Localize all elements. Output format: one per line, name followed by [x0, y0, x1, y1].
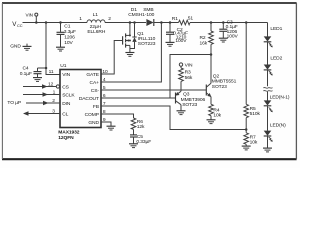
op-amp/IC U1 MAX1932	[58, 63, 101, 141]
svg-text:CC: CC	[17, 23, 23, 28]
svg-text:0.33µF: 0.33µF	[136, 139, 151, 145]
ground (C4)	[33, 78, 42, 82]
wire GATE pin to Q1 gate	[101, 41, 123, 75]
wire node54 to Q3 base column	[170, 55, 211, 99]
svg-text:56k: 56k	[185, 75, 193, 81]
node R2/Q2 collector junction	[210, 53, 213, 56]
node R2 tap	[210, 21, 213, 24]
ground (C1)	[56, 47, 65, 51]
terminal VIN (top input)	[26, 12, 38, 22]
svg-text:LED(N): LED(N)	[270, 123, 286, 129]
svg-text:100V: 100V	[175, 38, 187, 44]
transistor Q1 IRLL110 SOT223	[123, 23, 156, 53]
wire VCC rail to L1	[23, 22, 88, 24]
svg-text:U1: U1	[60, 63, 66, 69]
capacitor C1 3.3uF	[57, 23, 77, 48]
svg-text:ELL6RH: ELL6RH	[87, 29, 105, 35]
svg-text:CMSH1-100: CMSH1-100	[128, 12, 154, 18]
svg-text:3.3µF: 3.3µF	[64, 29, 76, 35]
svg-text:1206: 1206	[64, 35, 75, 41]
svg-text:510k: 510k	[250, 111, 261, 117]
terminal VIN (R3 pullup)	[179, 62, 193, 68]
wire DACOUT pin6 to Q3 base	[101, 97, 176, 99]
node R5 tap	[245, 21, 248, 24]
ground (Q1 source)	[125, 53, 134, 57]
node C4 junction	[45, 67, 48, 70]
transistor Q3 MMBT3906 SOT23	[175, 91, 205, 110]
svg-text:0.1µF: 0.1µF	[20, 71, 32, 77]
svg-text:DACOUT: DACOUT	[79, 96, 99, 102]
LED1	[264, 26, 283, 65]
ground (pin9)	[107, 126, 116, 130]
ground (input GND)	[10, 44, 31, 51]
node U1-VIN tap	[45, 21, 48, 24]
svg-text:Q2: Q2	[213, 74, 220, 80]
svg-text:SCLK: SCLK	[62, 92, 75, 98]
resistor R1 51	[172, 15, 194, 25]
svg-text:10k: 10k	[250, 140, 258, 146]
capacitor C4 0.1uF	[20, 65, 46, 77]
wire DIN from uP	[26, 101, 60, 105]
wire output rail down to LED string	[267, 23, 269, 37]
node C1 tap	[59, 21, 62, 24]
node Q1 drain tap	[129, 21, 132, 24]
svg-text:CS: CS	[62, 84, 69, 90]
svg-text:CS-: CS-	[91, 88, 100, 94]
ground (C5)	[129, 144, 138, 148]
svg-text:Q1: Q1	[137, 31, 144, 37]
svg-text:MAX1932: MAX1932	[58, 129, 79, 135]
svg-text:R3: R3	[185, 70, 191, 76]
resistor R7 10k	[244, 130, 258, 146]
svg-text:R1: R1	[172, 16, 178, 22]
wire D1 to R1	[154, 22, 179, 24]
svg-text:GND: GND	[10, 44, 21, 50]
svg-text:1: 1	[79, 16, 82, 22]
svg-text:SOT223: SOT223	[138, 41, 156, 47]
svg-text:10k: 10k	[213, 112, 221, 118]
resistor R6 12k	[131, 118, 145, 135]
svg-text:16k: 16k	[200, 40, 208, 46]
node FB divider junction	[245, 128, 248, 131]
svg-text:10: 10	[102, 69, 108, 75]
svg-text:VIN: VIN	[185, 62, 193, 68]
svg-text:FB: FB	[93, 104, 99, 110]
resistor R3 56k	[179, 66, 193, 91]
wire FB pin7 to divider	[101, 106, 246, 130]
svg-text:100V: 100V	[227, 34, 239, 40]
resistor R4 10k	[209, 104, 222, 119]
svg-text:VIN: VIN	[62, 72, 70, 78]
svg-text:12k: 12k	[137, 124, 145, 130]
resistor R5 510k	[244, 23, 261, 130]
svg-text:CL: CL	[62, 111, 68, 117]
wire COMP pin8 to R6	[101, 114, 134, 118]
node CS+ sense tap	[160, 21, 163, 24]
node C2 tap	[169, 21, 172, 24]
node VIN junction	[35, 21, 38, 24]
svg-text:Q3: Q3	[183, 92, 190, 98]
svg-text:12QFN: 12QFN	[58, 135, 74, 141]
border frame	[2, 3, 297, 159]
diode D1 CMSH1-100	[128, 7, 154, 26]
wire SCLK from uP	[23, 92, 60, 96]
inductor L1 22uH	[79, 12, 111, 35]
svg-text:R2: R2	[200, 35, 206, 41]
ground (R7)	[242, 146, 251, 150]
svg-text:MMBT5551: MMBT5551	[212, 79, 237, 85]
wire L1 to D1	[105, 22, 146, 24]
LED(N-1)	[264, 94, 290, 130]
LED2	[264, 55, 283, 86]
svg-text:SOT23: SOT23	[182, 102, 197, 108]
svg-text:LED(N-1): LED(N-1)	[270, 94, 290, 100]
node Q1 body-diode tap	[133, 21, 136, 24]
transistor Q2 MMBT5551 SOT23	[206, 55, 236, 105]
wire CS- pin5 to Q2 base	[101, 89, 206, 91]
svg-text:SOT23: SOT23	[212, 84, 227, 90]
ground (C3)	[219, 38, 228, 42]
ground (R4)	[207, 120, 216, 124]
svg-text:TO µP: TO µP	[7, 100, 21, 106]
svg-text:LED2: LED2	[270, 55, 282, 61]
svg-text:COMP: COMP	[85, 112, 99, 118]
ground (LED string)	[263, 148, 272, 152]
capacitor C2 0.47uF	[166, 23, 188, 45]
resistor R2 16k	[200, 23, 214, 55]
svg-text:L1: L1	[93, 12, 99, 18]
svg-text:10V: 10V	[64, 40, 73, 46]
capacitor C5 0.33uF	[130, 134, 151, 145]
LED(N)	[264, 123, 286, 148]
svg-text:11: 11	[49, 69, 54, 75]
svg-text:2: 2	[108, 16, 111, 22]
ground (C2)	[166, 42, 175, 46]
node C3 tap	[222, 21, 225, 24]
net label VCC	[12, 21, 22, 28]
wire GND pin9	[101, 122, 111, 126]
wire rail down to U1 VIN pin11	[46, 23, 60, 75]
ground (Q3)	[177, 111, 186, 115]
svg-text:CA+: CA+	[90, 80, 100, 86]
svg-text:VIN: VIN	[26, 12, 33, 17]
svg-text:C4: C4	[23, 65, 29, 71]
wire CS+ pin4 to output sense	[101, 23, 161, 83]
svg-text:GND: GND	[88, 120, 99, 126]
wire CS from uP	[23, 84, 60, 88]
svg-text:51: 51	[188, 15, 194, 21]
svg-text:C1: C1	[64, 24, 70, 30]
svg-text:GATE: GATE	[86, 72, 99, 78]
svg-text:DIN: DIN	[62, 101, 71, 107]
wire R1 to LED string corner	[190, 22, 268, 24]
wire CL to uP	[23, 111, 60, 115]
wire break (string continues)	[263, 87, 272, 100]
svg-text:LED1: LED1	[270, 26, 282, 32]
capacitor C3 0.1uF	[219, 19, 238, 39]
